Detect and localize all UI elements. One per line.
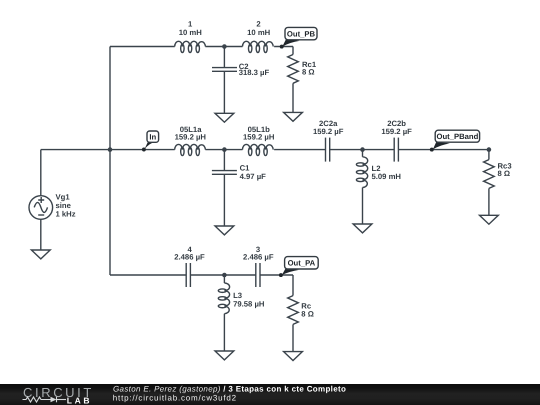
capacitor C1 (4.97 uF) — [212, 150, 266, 226]
flag Out_PBand — [430, 130, 480, 151]
inductor 1 (10 mH) — [175, 19, 206, 52]
svg-text:318.3 µF: 318.3 µF — [239, 68, 270, 77]
svg-text:159.2 µF: 159.2 µF — [313, 127, 344, 136]
wire: 2C2a to L2 node — [330, 149, 363, 151]
svg-text:2.486 µF: 2.486 µF — [174, 253, 205, 262]
ground (Rc3) — [480, 215, 499, 224]
ground (Rc) — [284, 352, 303, 361]
ground (L3) — [215, 351, 234, 360]
svg-text:1: 1 — [188, 19, 193, 28]
junction: C1 node — [222, 147, 227, 152]
wire: cap 4 to L3 node — [190, 274, 224, 276]
svg-text:1 kHz: 1 kHz — [56, 210, 76, 219]
capacitor 2C2b (159.2 uF) — [381, 119, 412, 162]
svg-text:Out_PBand: Out_PBand — [436, 132, 478, 141]
svg-text:79.58 µH: 79.58 µH — [233, 300, 265, 309]
inductor L2 (5.09 mH) — [356, 150, 401, 224]
wire: mid branch left — [110, 149, 175, 151]
capacitor 3 (2.486 uF) — [243, 245, 274, 287]
wire: left rail — [109, 47, 111, 276]
junction: L2 node — [360, 147, 365, 152]
ground (L2) — [353, 224, 372, 233]
svg-text:159.2 µF: 159.2 µF — [381, 127, 412, 136]
resistor Rc1 (8 Ohm) — [288, 47, 317, 113]
svg-text:10 mH: 10 mH — [179, 28, 203, 37]
svg-text:10 mH: 10 mH — [247, 28, 271, 37]
wire: 2C2b to Rc3 node — [398, 149, 489, 151]
flag Out_PB — [280, 27, 317, 48]
resistor Rc3 (8 Ohm) — [484, 150, 512, 216]
svg-text:159.2 µH: 159.2 µH — [243, 133, 275, 142]
svg-text:8 Ω: 8 Ω — [498, 169, 511, 178]
capacitor 2C2a (159.2 uF) — [313, 119, 344, 162]
ground (Vg1) — [31, 250, 50, 259]
resistor Rc (8 Ohm) — [288, 275, 314, 352]
ground (C1) — [215, 226, 234, 235]
svg-text:8 Ω: 8 Ω — [301, 310, 314, 319]
svg-text:159.2 µH: 159.2 µH — [175, 133, 207, 142]
wire: L2 node to 2C2b — [363, 149, 395, 151]
flag Out_PA — [279, 257, 318, 277]
capacitor C2 (318.3 uF) — [212, 47, 270, 114]
wire: mid branch to 2C2a — [274, 149, 325, 151]
ground (Rc1) — [284, 112, 303, 121]
inductor 2 (10 mH) — [243, 19, 274, 52]
inductor 05L1a (159.2 uH) — [175, 125, 207, 156]
junction: source node on rail — [108, 147, 113, 152]
junction: L3 node — [222, 273, 227, 278]
voltage source Vg1 (sine 1 kHz) — [29, 150, 76, 250]
wire: Vg1 top lead to rail — [41, 149, 110, 151]
ground (C2) — [215, 113, 234, 122]
svg-text:2.486 µF: 2.486 µF — [243, 253, 274, 262]
wire: top branch left — [110, 46, 175, 48]
svg-text:4.97 µF: 4.97 µF — [240, 172, 267, 181]
svg-text:8 Ω: 8 Ω — [302, 67, 315, 76]
wire: L3 node to cap 3 — [224, 274, 255, 276]
svg-text:2: 2 — [256, 19, 260, 28]
wire: mid branch between coils — [205, 149, 242, 151]
wire: top branch right — [274, 46, 293, 48]
svg-text:http://circuitlab.com/cw3ufd2: http://circuitlab.com/cw3ufd2 — [113, 393, 237, 402]
inductor 05L1b (159.2 uH) — [243, 125, 275, 156]
wire: bottom branch right — [260, 274, 293, 276]
svg-text:Out_PA: Out_PA — [288, 259, 316, 268]
footer bar — [0, 0, 1, 1]
wire: top branch middle — [205, 46, 242, 48]
svg-text:In: In — [149, 133, 156, 142]
CircuitLab logo — [23, 385, 94, 405]
wire: bottom branch left — [110, 274, 186, 276]
junction: C2 node — [222, 44, 227, 49]
svg-text:5.09 mH: 5.09 mH — [372, 172, 402, 181]
svg-text:LAB: LAB — [67, 395, 92, 405]
junction: Rc3 node — [487, 147, 492, 152]
capacitor 4 (2.486 uF) — [174, 245, 205, 287]
flag In — [142, 131, 159, 151]
svg-text:Gaston E. Perez (gastonep) / 3: Gaston E. Perez (gastonep) / 3 Etapas co… — [113, 384, 346, 393]
inductor L3 (79.58 uH) — [218, 275, 265, 351]
svg-text:Out_PB: Out_PB — [287, 29, 316, 38]
